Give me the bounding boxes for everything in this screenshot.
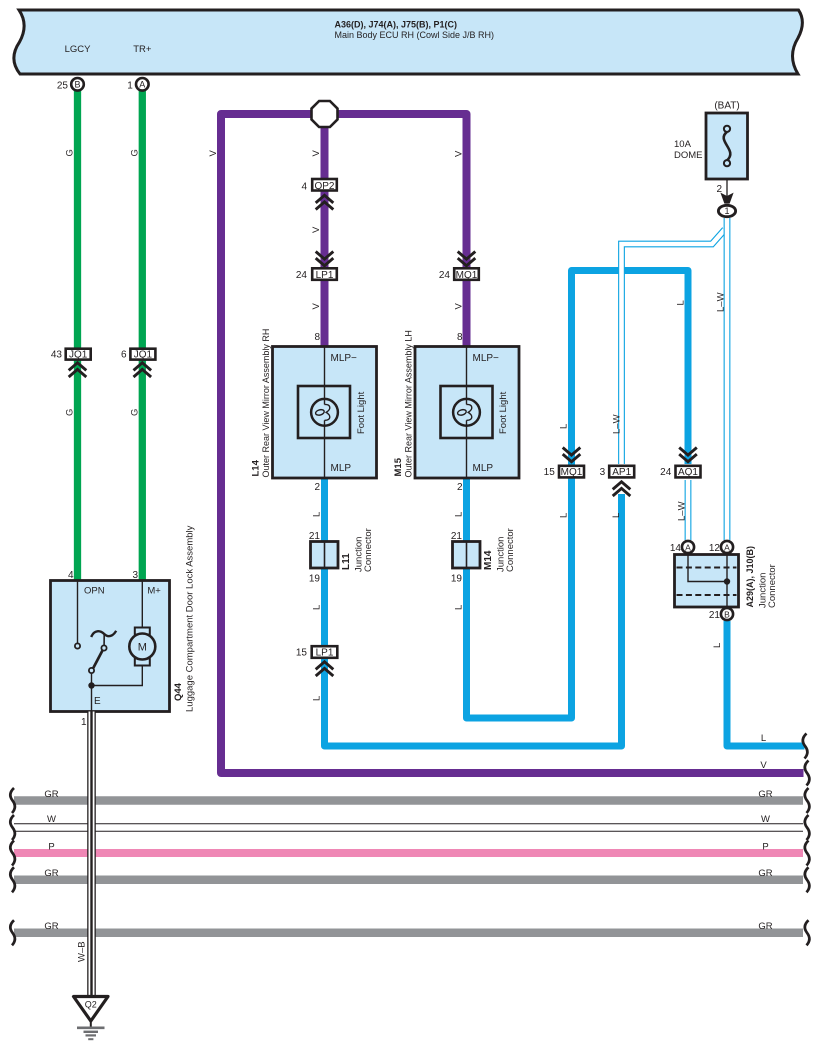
terminal B pin 21 bbox=[709, 608, 733, 621]
svg-text:Connector: Connector bbox=[363, 528, 374, 572]
svg-text:W–B: W–B bbox=[77, 941, 88, 962]
svg-text:P: P bbox=[48, 842, 54, 853]
svg-text:V: V bbox=[311, 226, 322, 233]
chevron junction above AQ1 bbox=[679, 448, 697, 462]
svg-text:15: 15 bbox=[296, 648, 308, 659]
connector 6 JQ1 bbox=[121, 349, 155, 361]
svg-text:V: V bbox=[454, 150, 465, 157]
terminal A pin 12 bbox=[709, 541, 733, 554]
svg-text:MLP: MLP bbox=[473, 463, 494, 474]
svg-text:Foot Light: Foot Light bbox=[498, 391, 509, 434]
svg-text:4: 4 bbox=[68, 570, 74, 581]
svg-text:1: 1 bbox=[81, 717, 87, 728]
svg-text:L: L bbox=[312, 605, 323, 610]
ground Q2 bbox=[74, 997, 109, 1040]
svg-text:G: G bbox=[130, 409, 141, 416]
svg-text:G: G bbox=[65, 149, 76, 156]
mirror assembly M15 bbox=[415, 347, 519, 479]
wire V top to MQ1 branch bbox=[325, 114, 467, 347]
terminal A pin 14 bbox=[670, 541, 694, 554]
svg-text:A29(A), J10(B): A29(A), J10(B) bbox=[745, 546, 755, 608]
chevron junction below AP1 bbox=[613, 482, 631, 496]
svg-text:MLP−: MLP− bbox=[473, 353, 500, 364]
svg-text:19: 19 bbox=[309, 574, 321, 585]
wire W-B from Q44 pin 1 to ground bbox=[87, 712, 96, 997]
wire L from junction B to right edge bbox=[727, 621, 805, 746]
svg-text:19: 19 bbox=[451, 574, 463, 585]
svg-text:Q2: Q2 bbox=[85, 1000, 97, 1010]
svg-text:M+: M+ bbox=[147, 586, 161, 597]
svg-text:GR: GR bbox=[44, 789, 58, 800]
wire G from ECU pin 1 to Q44 pin 3 bbox=[139, 89, 146, 581]
svg-text:JQ1: JQ1 bbox=[134, 350, 153, 361]
svg-text:GR: GR bbox=[44, 868, 58, 879]
junction connector M14 bbox=[451, 531, 480, 585]
svg-text:A: A bbox=[139, 80, 145, 90]
wire L from M15 pin2 to MQ1 to AQ1 bbox=[467, 271, 689, 719]
svg-text:M15: M15 bbox=[393, 457, 404, 476]
svg-text:L: L bbox=[559, 513, 570, 518]
svg-text:A: A bbox=[724, 542, 730, 552]
svg-text:V: V bbox=[311, 303, 322, 310]
svg-text:MQ1: MQ1 bbox=[456, 270, 478, 281]
svg-text:A36(D), J74(A), J75(B), P1(C): A36(D), J74(A), J75(B), P1(C) bbox=[335, 19, 458, 29]
svg-text:G: G bbox=[65, 409, 76, 416]
chevron junction above MQ1 bbox=[563, 448, 581, 462]
ECU header band bbox=[14, 10, 803, 74]
svg-text:6: 6 bbox=[121, 350, 127, 361]
connector 24 AQ1 bbox=[660, 466, 700, 478]
svg-text:Connector: Connector bbox=[767, 564, 778, 608]
bus GR 1 bbox=[10, 788, 809, 813]
svg-text:21: 21 bbox=[309, 531, 321, 542]
svg-text:V: V bbox=[454, 303, 465, 310]
svg-text:OPN: OPN bbox=[84, 586, 105, 597]
chevron junction below LP1 bbox=[316, 662, 334, 676]
svg-text:L: L bbox=[559, 424, 570, 429]
connector 24 LP1 bbox=[296, 268, 337, 281]
svg-text:4: 4 bbox=[301, 182, 307, 193]
svg-text:LP1: LP1 bbox=[316, 648, 334, 659]
svg-text:1: 1 bbox=[127, 81, 133, 92]
svg-text:21: 21 bbox=[451, 531, 463, 542]
svg-text:8: 8 bbox=[314, 332, 320, 343]
svg-text:21: 21 bbox=[709, 610, 721, 621]
svg-text:V: V bbox=[208, 150, 219, 157]
svg-text:L–W: L–W bbox=[677, 501, 688, 521]
svg-text:MQ1: MQ1 bbox=[561, 467, 583, 478]
svg-text:L: L bbox=[712, 643, 723, 648]
connector 24 MQ1 bbox=[439, 268, 479, 281]
svg-text:L: L bbox=[454, 605, 465, 610]
svg-text:25: 25 bbox=[57, 81, 69, 92]
svg-text:AP1: AP1 bbox=[612, 467, 631, 478]
wire L-W from AP1 to fuse node bbox=[622, 230, 725, 465]
wire L-W from fuse oval to junction pin 12 bbox=[724, 218, 731, 540]
svg-text:JQ1: JQ1 bbox=[69, 350, 88, 361]
svg-text:QP2: QP2 bbox=[314, 181, 334, 192]
svg-text:AQ1: AQ1 bbox=[678, 467, 698, 478]
squiggle V end bbox=[805, 761, 810, 786]
svg-text:W: W bbox=[47, 814, 56, 825]
connector 4 QP2 bbox=[301, 179, 336, 193]
svg-text:Connector: Connector bbox=[505, 528, 516, 572]
bus W bbox=[10, 814, 809, 840]
chevron junction above LP1 bbox=[316, 252, 334, 266]
wire L from L14 pin2 to AP1 bbox=[325, 478, 622, 746]
terminal A pin 1 bbox=[127, 78, 148, 92]
svg-text:8: 8 bbox=[457, 332, 463, 343]
svg-text:L14: L14 bbox=[250, 459, 261, 476]
svg-text:G: G bbox=[130, 149, 141, 156]
svg-text:M14: M14 bbox=[483, 550, 494, 570]
svg-text:3: 3 bbox=[132, 570, 138, 581]
arrow to node 1 bbox=[720, 193, 733, 204]
chevron junction below JQ1 bbox=[69, 363, 87, 377]
connector 43 JQ1 bbox=[51, 349, 91, 361]
svg-text:E: E bbox=[94, 696, 101, 707]
svg-text:V: V bbox=[760, 760, 767, 771]
svg-text:Main Body ECU RH (Cowl Side J/: Main Body ECU RH (Cowl Side J/B RH) bbox=[335, 30, 495, 40]
svg-text:L: L bbox=[676, 300, 687, 305]
svg-text:24: 24 bbox=[439, 270, 451, 281]
svg-text:2: 2 bbox=[457, 482, 463, 493]
svg-text:GR: GR bbox=[44, 921, 58, 932]
svg-text:P: P bbox=[762, 842, 768, 853]
svg-text:V: V bbox=[311, 150, 322, 157]
chevron junction above MQ1 bbox=[458, 252, 476, 266]
junction connector L11 bbox=[309, 531, 338, 585]
svg-text:Q44: Q44 bbox=[173, 682, 184, 701]
svg-text:3: 3 bbox=[600, 467, 606, 478]
squiggle L end bbox=[803, 734, 808, 759]
svg-text:MLP−: MLP− bbox=[331, 353, 358, 364]
svg-text:L–W: L–W bbox=[612, 414, 623, 434]
svg-text:GR: GR bbox=[758, 921, 772, 932]
connector 3 AP1 bbox=[600, 466, 635, 478]
node 1 oval bbox=[718, 205, 735, 216]
svg-text:Outer Rear View Mirror Assembl: Outer Rear View Mirror Assembly RH bbox=[261, 329, 271, 478]
svg-text:GR: GR bbox=[758, 789, 772, 800]
connector 15 MQ1 bbox=[544, 466, 584, 478]
chevron junction below JQ1 bbox=[134, 363, 152, 377]
svg-text:12: 12 bbox=[709, 543, 721, 554]
svg-text:L11: L11 bbox=[341, 553, 352, 570]
wire G from ECU pin 25 to Q44 pin 4 bbox=[74, 89, 81, 581]
bus GR 3 bbox=[10, 920, 809, 945]
fuse 10A DOME bbox=[674, 101, 748, 180]
Q44 door lock assembly bbox=[51, 581, 170, 712]
svg-text:B: B bbox=[724, 609, 730, 619]
svg-text:2: 2 bbox=[314, 482, 320, 493]
svg-text:Outer Rear View Mirror Assembl: Outer Rear View Mirror Assembly LH bbox=[404, 330, 414, 477]
wire V octagon branch down bbox=[321, 114, 329, 347]
svg-text:B: B bbox=[74, 80, 80, 90]
junction connector A29/J10 bbox=[675, 555, 739, 608]
svg-text:LGCY: LGCY bbox=[65, 44, 92, 55]
svg-text:M: M bbox=[138, 642, 147, 654]
terminal B pin 25 bbox=[57, 78, 84, 92]
svg-text:24: 24 bbox=[296, 270, 308, 281]
svg-text:10A: 10A bbox=[674, 139, 692, 150]
wire L-W from AQ1 to junction pin 14 bbox=[685, 480, 692, 540]
svg-text:GR: GR bbox=[758, 868, 772, 879]
svg-text:L–W: L–W bbox=[715, 292, 726, 312]
svg-text:MLP: MLP bbox=[331, 463, 352, 474]
connector 15 LP1 bbox=[296, 646, 337, 658]
svg-text:15: 15 bbox=[544, 467, 556, 478]
svg-text:A: A bbox=[685, 542, 691, 552]
svg-text:L: L bbox=[312, 696, 323, 701]
svg-text:24: 24 bbox=[660, 467, 672, 478]
bus GR 2 bbox=[10, 867, 809, 892]
svg-text:L: L bbox=[312, 512, 323, 517]
bus P bbox=[10, 841, 809, 866]
svg-text:LP1: LP1 bbox=[316, 270, 334, 281]
svg-text:L: L bbox=[454, 512, 465, 517]
svg-text:DOME: DOME bbox=[674, 150, 703, 161]
svg-text:1: 1 bbox=[724, 206, 729, 216]
mirror assembly L14 bbox=[273, 347, 377, 479]
svg-text:14: 14 bbox=[670, 543, 682, 554]
svg-text:(BAT): (BAT) bbox=[714, 101, 739, 112]
chevron junction below QP2 bbox=[316, 195, 334, 209]
wire V main loop bbox=[221, 114, 804, 773]
svg-text:W: W bbox=[761, 814, 770, 825]
svg-text:TR+: TR+ bbox=[133, 44, 152, 55]
svg-text:Luggage Compartment Door Lock: Luggage Compartment Door Lock Assembly bbox=[185, 525, 196, 712]
fuse pin 2 lead bbox=[726, 179, 728, 197]
svg-text:Foot Light: Foot Light bbox=[356, 391, 367, 434]
node octagon junction bbox=[312, 101, 338, 127]
svg-text:43: 43 bbox=[51, 350, 63, 361]
svg-text:L: L bbox=[611, 513, 622, 518]
svg-text:L: L bbox=[761, 733, 766, 744]
